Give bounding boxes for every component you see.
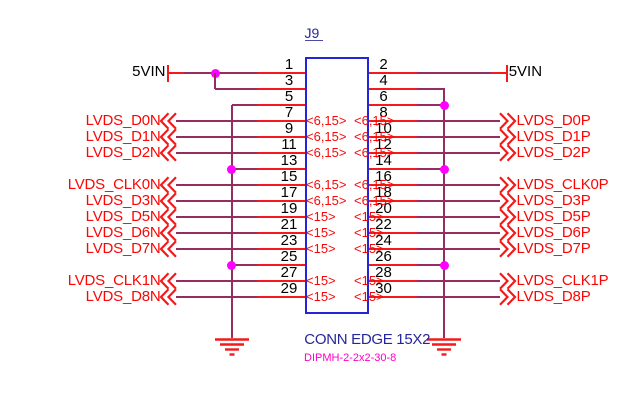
pin 23: [257, 248, 305, 250]
power symbol 5VIN left: [132, 64, 165, 79]
pin 24: [369, 248, 417, 250]
pin number 27: [229, 265, 349, 280]
off-page connector LVDS_D0N: [157, 112, 179, 130]
wire 5VIN to pin 1: [184, 72, 257, 74]
off-page connector LVDS_D6P: [497, 224, 519, 242]
off-page connector LVDS_D8P: [497, 288, 519, 306]
pin 15: [257, 184, 305, 186]
net label LVDS_CLK0P: [517, 177, 609, 192]
wire LVDS_D3N: [176, 200, 257, 202]
pin 29: [257, 296, 305, 298]
pin 2: [369, 72, 417, 74]
pin 4: [369, 88, 417, 90]
junction pin 14: [440, 165, 449, 174]
off-page connector LVDS_D1P: [497, 128, 519, 146]
pin number 13: [229, 153, 349, 168]
net label LVDS_CLK1N: [68, 273, 161, 288]
pin 17 section label &lt;6,15&gt;: [306, 194, 347, 207]
wire pin 26 to rail: [417, 264, 444, 266]
pin 30: [369, 296, 417, 298]
pin 28: [369, 280, 417, 282]
wire LVDS_D5N: [176, 216, 257, 218]
ground left: [214, 338, 250, 358]
pin number 23: [229, 233, 349, 248]
pin 9: [257, 136, 305, 138]
junction pin 13: [227, 165, 236, 174]
wire 5VIN branch down: [214, 73, 216, 89]
net label LVDS_D6P: [517, 225, 591, 240]
pin number 2: [324, 57, 444, 72]
wire pin 6 to rail: [417, 104, 444, 106]
wire LVDS_D2P: [417, 152, 500, 154]
power symbol bar left: [167, 65, 169, 83]
pin 10: [369, 136, 417, 138]
pin number 16: [324, 169, 444, 184]
wire LVDS_CLK0N: [176, 184, 257, 186]
pin number 1: [229, 57, 349, 72]
off-page connector LVDS_D0P: [497, 112, 519, 130]
net label LVDS_D7P: [517, 241, 591, 256]
pin 1: [257, 72, 305, 74]
pin 11: [257, 152, 305, 154]
pin 28 section label &lt;15&gt;: [354, 274, 384, 287]
wire LVDS_CLK0P: [417, 184, 500, 186]
pin 16: [369, 184, 417, 186]
pin 19: [257, 216, 305, 218]
wire LVDS_D7N: [176, 248, 257, 250]
pin number 3: [229, 73, 349, 88]
wire pin 5 to rail: [232, 104, 257, 106]
off-page connector LVDS_D6N: [157, 224, 179, 242]
pin 30 section label &lt;15&gt;: [354, 290, 384, 303]
power pin left: [168, 72, 185, 74]
pin 7: [257, 120, 305, 122]
pin 16 section label &lt;6,15&gt;: [354, 178, 395, 191]
pin number 28: [324, 265, 444, 280]
power pin right: [491, 72, 508, 74]
wire pin 2 to 5VIN: [417, 72, 491, 74]
pin 7 section label &lt;6,15&gt;: [306, 114, 347, 127]
pin number 5: [229, 89, 349, 104]
pin 13: [257, 168, 305, 170]
pin number 26: [324, 249, 444, 264]
pin number 12: [324, 137, 444, 152]
wire LVDS_D1N: [176, 136, 257, 138]
net label LVDS_D1P: [517, 129, 591, 144]
wire LVDS_D0N: [176, 120, 257, 122]
junction pin 25: [227, 261, 236, 270]
net label LVDS_D5N: [86, 209, 161, 224]
pin 17: [257, 200, 305, 202]
pin 22 section label &lt;15&gt;: [354, 226, 384, 239]
pin 14: [369, 168, 417, 170]
pin number 10: [324, 121, 444, 136]
net label LVDS_D7N: [86, 241, 161, 256]
ground right: [426, 338, 462, 358]
wire LVDS_D5P: [417, 216, 500, 218]
pin 18: [369, 200, 417, 202]
off-page connector LVDS_CLK1N: [157, 272, 179, 290]
pin number 22: [324, 217, 444, 232]
wire LVDS_CLK1P: [417, 280, 500, 282]
pin 12 section label &lt;6,15&gt;: [354, 146, 395, 159]
wire pin 4 to rail: [417, 88, 445, 90]
net label LVDS_D3P: [517, 193, 591, 208]
net label LVDS_CLK0N: [68, 177, 161, 192]
wire LVDS_D8P: [417, 296, 500, 298]
pin number 9: [229, 121, 349, 136]
pin 10 section label &lt;6,15&gt;: [354, 130, 395, 143]
off-page connector LVDS_CLK1P: [497, 272, 519, 290]
pin 12: [369, 152, 417, 154]
off-page connector LVDS_CLK0N: [157, 176, 179, 194]
wire LVDS_D2N: [176, 152, 257, 154]
net label LVDS_D0N: [86, 113, 161, 128]
pin 8 section label &lt;6,15&gt;: [354, 114, 395, 127]
pin 21: [257, 232, 305, 234]
pin number 6: [324, 89, 444, 104]
wire LVDS_D0P: [417, 120, 500, 122]
off-page connector LVDS_D7N: [157, 240, 179, 258]
pin 24 section label &lt;15&gt;: [354, 242, 384, 255]
pin number 30: [324, 281, 444, 296]
pin number 15: [229, 169, 349, 184]
off-page connector LVDS_D1N: [157, 128, 179, 146]
off-page connector LVDS_D3P: [497, 192, 519, 210]
off-page connector LVDS_D5N: [157, 208, 179, 226]
net label LVDS_D2N: [86, 145, 161, 160]
pin number 7: [229, 105, 349, 120]
pin number 19: [229, 201, 349, 216]
net label LVDS_D5P: [517, 209, 591, 224]
pin number 4: [324, 73, 444, 88]
junction 5VIN: [211, 69, 220, 78]
pin number 14: [324, 153, 444, 168]
wire LVDS_D1P: [417, 136, 500, 138]
off-page connector LVDS_D2P: [497, 144, 519, 162]
part footprint DIPMH-2-2x2-30-8: [304, 353, 396, 364]
pin 18 section label &lt;6,15&gt;: [354, 194, 395, 207]
pin 5: [257, 104, 305, 106]
off-page connector LVDS_D5P: [497, 208, 519, 226]
pin 22: [369, 232, 417, 234]
pin 20 section label &lt;15&gt;: [354, 210, 384, 223]
refdes underline: [305, 40, 324, 42]
wire pin 25 to rail: [232, 264, 257, 266]
connector J9 refdes: [305, 26, 320, 40]
junction pin 26: [440, 261, 449, 270]
wire pin 13 to rail: [232, 168, 257, 170]
pin 15 section label &lt;6,15&gt;: [306, 178, 347, 191]
wire LVDS_D6P: [417, 232, 500, 234]
pin number 29: [229, 281, 349, 296]
pin 26: [369, 264, 417, 266]
pin 27: [257, 280, 305, 282]
net label LVDS_D0P: [517, 113, 591, 128]
wire LVDS_D3P: [417, 200, 500, 202]
pin 21 section label &lt;15&gt;: [306, 226, 336, 239]
pin number 11: [229, 137, 349, 152]
pin 27 section label &lt;15&gt;: [306, 274, 336, 287]
off-page connector LVDS_D3N: [157, 192, 179, 210]
pin 25: [257, 264, 305, 266]
wire LVDS_D8N: [176, 296, 257, 298]
connector J9 body: [305, 57, 370, 314]
pin number 25: [229, 249, 349, 264]
pin number 24: [324, 233, 444, 248]
net label LVDS_CLK1P: [517, 273, 609, 288]
wire LVDS_D7P: [417, 248, 500, 250]
pin 29 section label &lt;15&gt;: [306, 290, 336, 303]
pin 23 section label &lt;15&gt;: [306, 242, 336, 255]
pin 6: [369, 104, 417, 106]
off-page connector LVDS_CLK0P: [497, 176, 519, 194]
pin 9 section label &lt;6,15&gt;: [306, 130, 347, 143]
wire branch to pin 3: [215, 88, 257, 90]
pin number 8: [324, 105, 444, 120]
net label LVDS_D1N: [86, 129, 161, 144]
left ground rail: [231, 105, 233, 338]
off-page connector LVDS_D7P: [497, 240, 519, 258]
pin 11 section label &lt;6,15&gt;: [306, 146, 347, 159]
net label LVDS_D6N: [86, 225, 161, 240]
net label LVDS_D8P: [517, 289, 591, 304]
off-page connector LVDS_D8N: [157, 288, 179, 306]
pin number 18: [324, 185, 444, 200]
pin number 20: [324, 201, 444, 216]
net label LVDS_D2P: [517, 145, 591, 160]
pin 3: [257, 88, 305, 90]
junction pin 6: [440, 101, 449, 110]
pin 8: [369, 120, 417, 122]
net label LVDS_D8N: [86, 289, 161, 304]
pin number 17: [229, 185, 349, 200]
pin 19 section label &lt;15&gt;: [306, 210, 336, 223]
pin 20: [369, 216, 417, 218]
power symbol 5VIN right: [509, 64, 542, 79]
net label LVDS_D3N: [86, 193, 161, 208]
wire LVDS_D6N: [176, 232, 257, 234]
wire LVDS_CLK1N: [176, 280, 257, 282]
wire pin 14 to rail: [417, 168, 444, 170]
part value CONN EDGE 15X2: [304, 332, 430, 347]
power symbol bar right: [506, 65, 508, 83]
pin number 21: [229, 217, 349, 232]
off-page connector LVDS_D2N: [157, 144, 179, 162]
right ground rail: [443, 89, 445, 338]
